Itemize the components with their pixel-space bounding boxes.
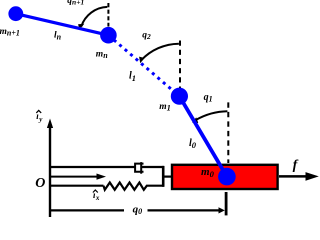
junction bar [162,166,165,187]
svg-text:l1: l1 [129,70,136,82]
x unit vector arrow i_x [50,174,106,180]
dashed vertical reference line above mass m_n [107,3,109,27]
damper rod to junction [141,166,164,168]
q_0 dimension tick at cart pivot [225,192,228,215]
spring k [104,183,165,190]
link l_0 from m_1 to m_0 [179,96,227,176]
mass m_1 circle [171,88,188,105]
svg-text:qn+1: qn+1 [67,0,84,7]
svg-text:mn: mn [96,49,108,60]
damper piston plate [140,162,142,174]
mass m_n circle [100,27,117,44]
rod from junction to cart [163,176,172,178]
angle arc q_1 [192,111,227,123]
bottom anchor line to spring [50,185,104,187]
svg-text:q1: q1 [204,92,213,104]
q_0 dimension line left segment [50,209,124,211]
force arrow f [279,172,319,181]
dashed vertical reference line above mass m_1 [179,41,181,91]
q_0 dimension line right segment with arrow [148,207,225,213]
label i_x hat [93,190,100,202]
mass m_n+1 circle [8,6,23,21]
dashed vertical reference line above cart pivot m_0 [227,102,229,163]
svg-text:q2: q2 [142,31,151,42]
label i_y hat [36,110,43,123]
angle arc q_n+1 [78,7,107,30]
link l_n from m_n+1 to m_n [16,14,109,36]
y axis arrow i_y [47,119,53,218]
cart body m_0 [172,165,278,189]
svg-text:O: O [35,176,45,191]
dotted link l_1 (omitted links) from m_n to m_1 [108,35,179,96]
angle arc q_2 [139,44,179,64]
pivot mass m_0 circle [218,168,236,186]
svg-text:mn+1: mn+1 [0,27,20,38]
svg-text:m1: m1 [159,102,171,113]
svg-text:ln: ln [54,31,62,42]
top anchor line to damper [50,166,135,168]
damper cup [135,164,143,172]
svg-text:l0: l0 [189,138,197,150]
